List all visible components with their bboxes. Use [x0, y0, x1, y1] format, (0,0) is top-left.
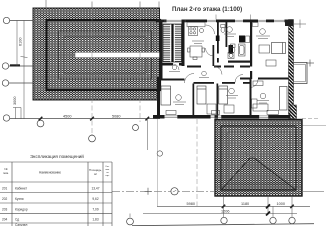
- corridor door arcs: [173, 64, 243, 83]
- axis circle 4-bottom: [270, 217, 276, 223]
- bedroom TR desk: [266, 60, 276, 66]
- svg-text:Сд: Сд: [15, 218, 19, 222]
- building corner block SE: [290, 105, 297, 119]
- lower roof inner rect 2: [227, 132, 290, 184]
- svg-text:м²: м²: [94, 172, 97, 176]
- svg-text:Наименование: Наименование: [39, 171, 61, 175]
- svg-text:Экспликация помещений: Экспликация помещений: [30, 153, 84, 159]
- svg-text:1180: 1180: [241, 202, 249, 206]
- axis dashed vertical x=140: [139, 8, 141, 122]
- axis circle 5-bottom: [289, 217, 295, 223]
- cross tick left of axis line: [145, 188, 152, 195]
- bathroom label lines: [224, 34, 236, 37]
- svg-text:4500: 4500: [63, 115, 71, 119]
- right side dash lines: [302, 118, 326, 125]
- washer: [228, 53, 234, 59]
- left vertical dimension lines: [17, 21, 28, 119]
- dimension line 2: [143, 213, 297, 215]
- dim bold tick 2: [265, 211, 270, 216]
- top wall witness ticks: [216, 15, 251, 20]
- hall door arc 2: [206, 48, 214, 56]
- corridor south wall segments: [194, 82, 251, 84]
- svg-text:203: 203: [2, 208, 8, 212]
- svg-text:Кат.: Кат.: [106, 166, 110, 168]
- bathroom east wall lower: [250, 71, 252, 79]
- bedroom ML label lines: [173, 102, 186, 105]
- roof axis dashed vertical: [196, 119, 198, 206]
- bedroom MR label circle: [229, 88, 235, 94]
- shaft outline box: [245, 36, 249, 43]
- stair block: [163, 24, 182, 62]
- bottom wall window lines: [165, 116, 269, 118]
- roof hatch bottom-right: [215, 120, 302, 197]
- bathroom west wall: [217, 21, 219, 54]
- living room sofa bottom: [253, 104, 268, 111]
- svg-text:1206: 1206: [221, 209, 229, 213]
- bedroom TR table: [259, 45, 270, 53]
- vent shaft 1: [216, 36, 220, 42]
- wall stair-kitchen: [182, 20, 185, 67]
- svg-text:1,83: 1,83: [92, 218, 98, 222]
- kitchen stove: [189, 27, 204, 36]
- axis circle mid-1: [37, 120, 44, 127]
- axis circle A-left: [3, 17, 33, 23]
- dimension witness lines below roof: [224, 196, 293, 218]
- svg-text:9,62: 9,62: [92, 197, 98, 201]
- living room label lines: [257, 101, 269, 104]
- bedroom ML bed: [161, 86, 171, 105]
- svg-text:7,09: 7,09: [92, 208, 98, 212]
- axis circle left-mid: [3, 115, 9, 121]
- step witness: [13, 108, 21, 119]
- wc toilet small: [221, 25, 225, 33]
- top-right corner solid: [285, 20, 294, 27]
- axis line below building: [112, 190, 324, 192]
- roof hatch top-left: [33, 8, 160, 100]
- svg-text:5080: 5080: [112, 115, 120, 119]
- dim tick bold left: [10, 64, 20, 66]
- bedroom M desk: [207, 104, 216, 114]
- hall door arc: [206, 25, 215, 34]
- kitchen table: [188, 46, 205, 60]
- corridor north wall left part: [187, 66, 250, 68]
- partition bedroom1/2: [193, 84, 195, 116]
- witness from SW corner: [156, 119, 158, 206]
- axis circle on line: [171, 188, 178, 195]
- axis circle B-left: [2, 63, 33, 69]
- svg-text:1000: 1000: [277, 202, 285, 206]
- vent shaft 3: [229, 45, 234, 54]
- bedroom MR bed: [219, 86, 228, 104]
- axis circle C-left: [2, 80, 33, 86]
- axis circle 3-bottom: [221, 217, 227, 223]
- bedroom MR desk: [224, 105, 234, 113]
- living room label circle: [260, 93, 266, 99]
- vent shaft 2: [239, 36, 245, 43]
- svg-text:3000: 3000: [13, 97, 17, 105]
- stair hall south wall: [163, 63, 185, 66]
- corridor mid label: [199, 71, 209, 77]
- axis circle mid-2: [89, 134, 96, 142]
- bathroom mid wall: [226, 21, 228, 47]
- living room sofa: [253, 81, 263, 86]
- svg-text:204: 204: [2, 218, 8, 222]
- right wall: [289, 20, 294, 119]
- partition living room: [250, 79, 252, 116]
- stair stringer: [171, 24, 173, 62]
- svg-text:Санузел: Санузел: [15, 223, 28, 226]
- bathroom south wall: [228, 61, 252, 63]
- sheet edge line bottom: [132, 224, 314, 226]
- svg-text:пом.: пом.: [3, 171, 9, 175]
- svg-text:202: 202: [2, 197, 8, 201]
- left wall lower: [157, 77, 160, 119]
- top-right dim ticks: [294, 20, 306, 29]
- bedroom TR window sill: [253, 23, 259, 27]
- left wall upper: [160, 20, 163, 78]
- bedroom ML label circle: [176, 95, 182, 101]
- stair stringer white channels: [170, 24, 171, 61]
- dim bold tick 1: [265, 204, 270, 209]
- svg-text:Коридор: Коридор: [15, 208, 28, 212]
- hip faint diagonals to top: [221, 126, 296, 158]
- bathroom label circle: [227, 27, 233, 33]
- hip ridge diagonals: [221, 158, 296, 190]
- svg-text:201: 201: [2, 187, 8, 191]
- corridor south wall left: [160, 79, 185, 81]
- corridor hall label: [169, 65, 180, 71]
- dim line horizontal: [10, 118, 160, 120]
- top wall window lines: [164, 20, 285, 22]
- svg-text:взр.: взр.: [106, 175, 110, 177]
- svg-text:План 2-го этажа (1:100): План 2-го этажа (1:100): [172, 6, 242, 13]
- axis circle mid-3: [133, 125, 139, 131]
- roof ridge slot: [75, 52, 160, 57]
- table frame: [0, 162, 112, 226]
- bathtub: [239, 44, 246, 56]
- hall closet wall: [213, 45, 215, 66]
- bedroom TR label circle: [260, 29, 266, 35]
- witness vertical right: [146, 119, 148, 150]
- window sill radiator 1: [166, 111, 176, 115]
- bedroom MR label lines: [226, 96, 238, 99]
- bedroom M bed: [197, 86, 206, 104]
- tick inside axis circle: [173, 190, 176, 192]
- svg-text:пом.: пом.: [105, 169, 110, 171]
- svg-text:6100: 6100: [19, 38, 23, 46]
- living room wardrobe: [280, 87, 288, 111]
- svg-text:5980: 5980: [187, 202, 195, 206]
- window sill radiator 3: [267, 110, 279, 114]
- svg-text:Кухня: Кухня: [15, 197, 24, 201]
- living room table: [252, 99, 258, 108]
- top witness ticks: [46, 0, 159, 8]
- svg-text:Кабинет: Кабинет: [15, 187, 28, 191]
- roof wing wall outline: [47, 20, 161, 90]
- toilet: [231, 44, 236, 53]
- window sill radiator 2: [212, 111, 220, 115]
- axis dashed vertical x=92: [91, 8, 93, 134]
- partition bedroom2/3: [217, 84, 219, 116]
- dimension line 1: [157, 205, 310, 207]
- roof inner outline 2: [64, 37, 146, 74]
- balcony right: [294, 63, 308, 84]
- kitchen counter: [187, 22, 205, 27]
- bathroom east wall: [250, 20, 252, 67]
- axis bubble on corner witness: [157, 151, 162, 156]
- corridor north wall right part: [240, 78, 250, 80]
- roof inner outline 1: [59, 31, 152, 79]
- left wall jog: [157, 77, 163, 79]
- axis circle bottom-left cut: [127, 214, 134, 225]
- svg-text:13,47: 13,47: [92, 187, 100, 191]
- bedroom TR label lines: [256, 36, 270, 39]
- bedroom TR bed: [272, 43, 286, 54]
- kitchen label: [192, 41, 204, 44]
- top wall segments: [156, 20, 294, 23]
- lower roof inner rect: [221, 126, 296, 190]
- bottom wall segments: [153, 115, 290, 119]
- balcony cross mark: [306, 60, 314, 67]
